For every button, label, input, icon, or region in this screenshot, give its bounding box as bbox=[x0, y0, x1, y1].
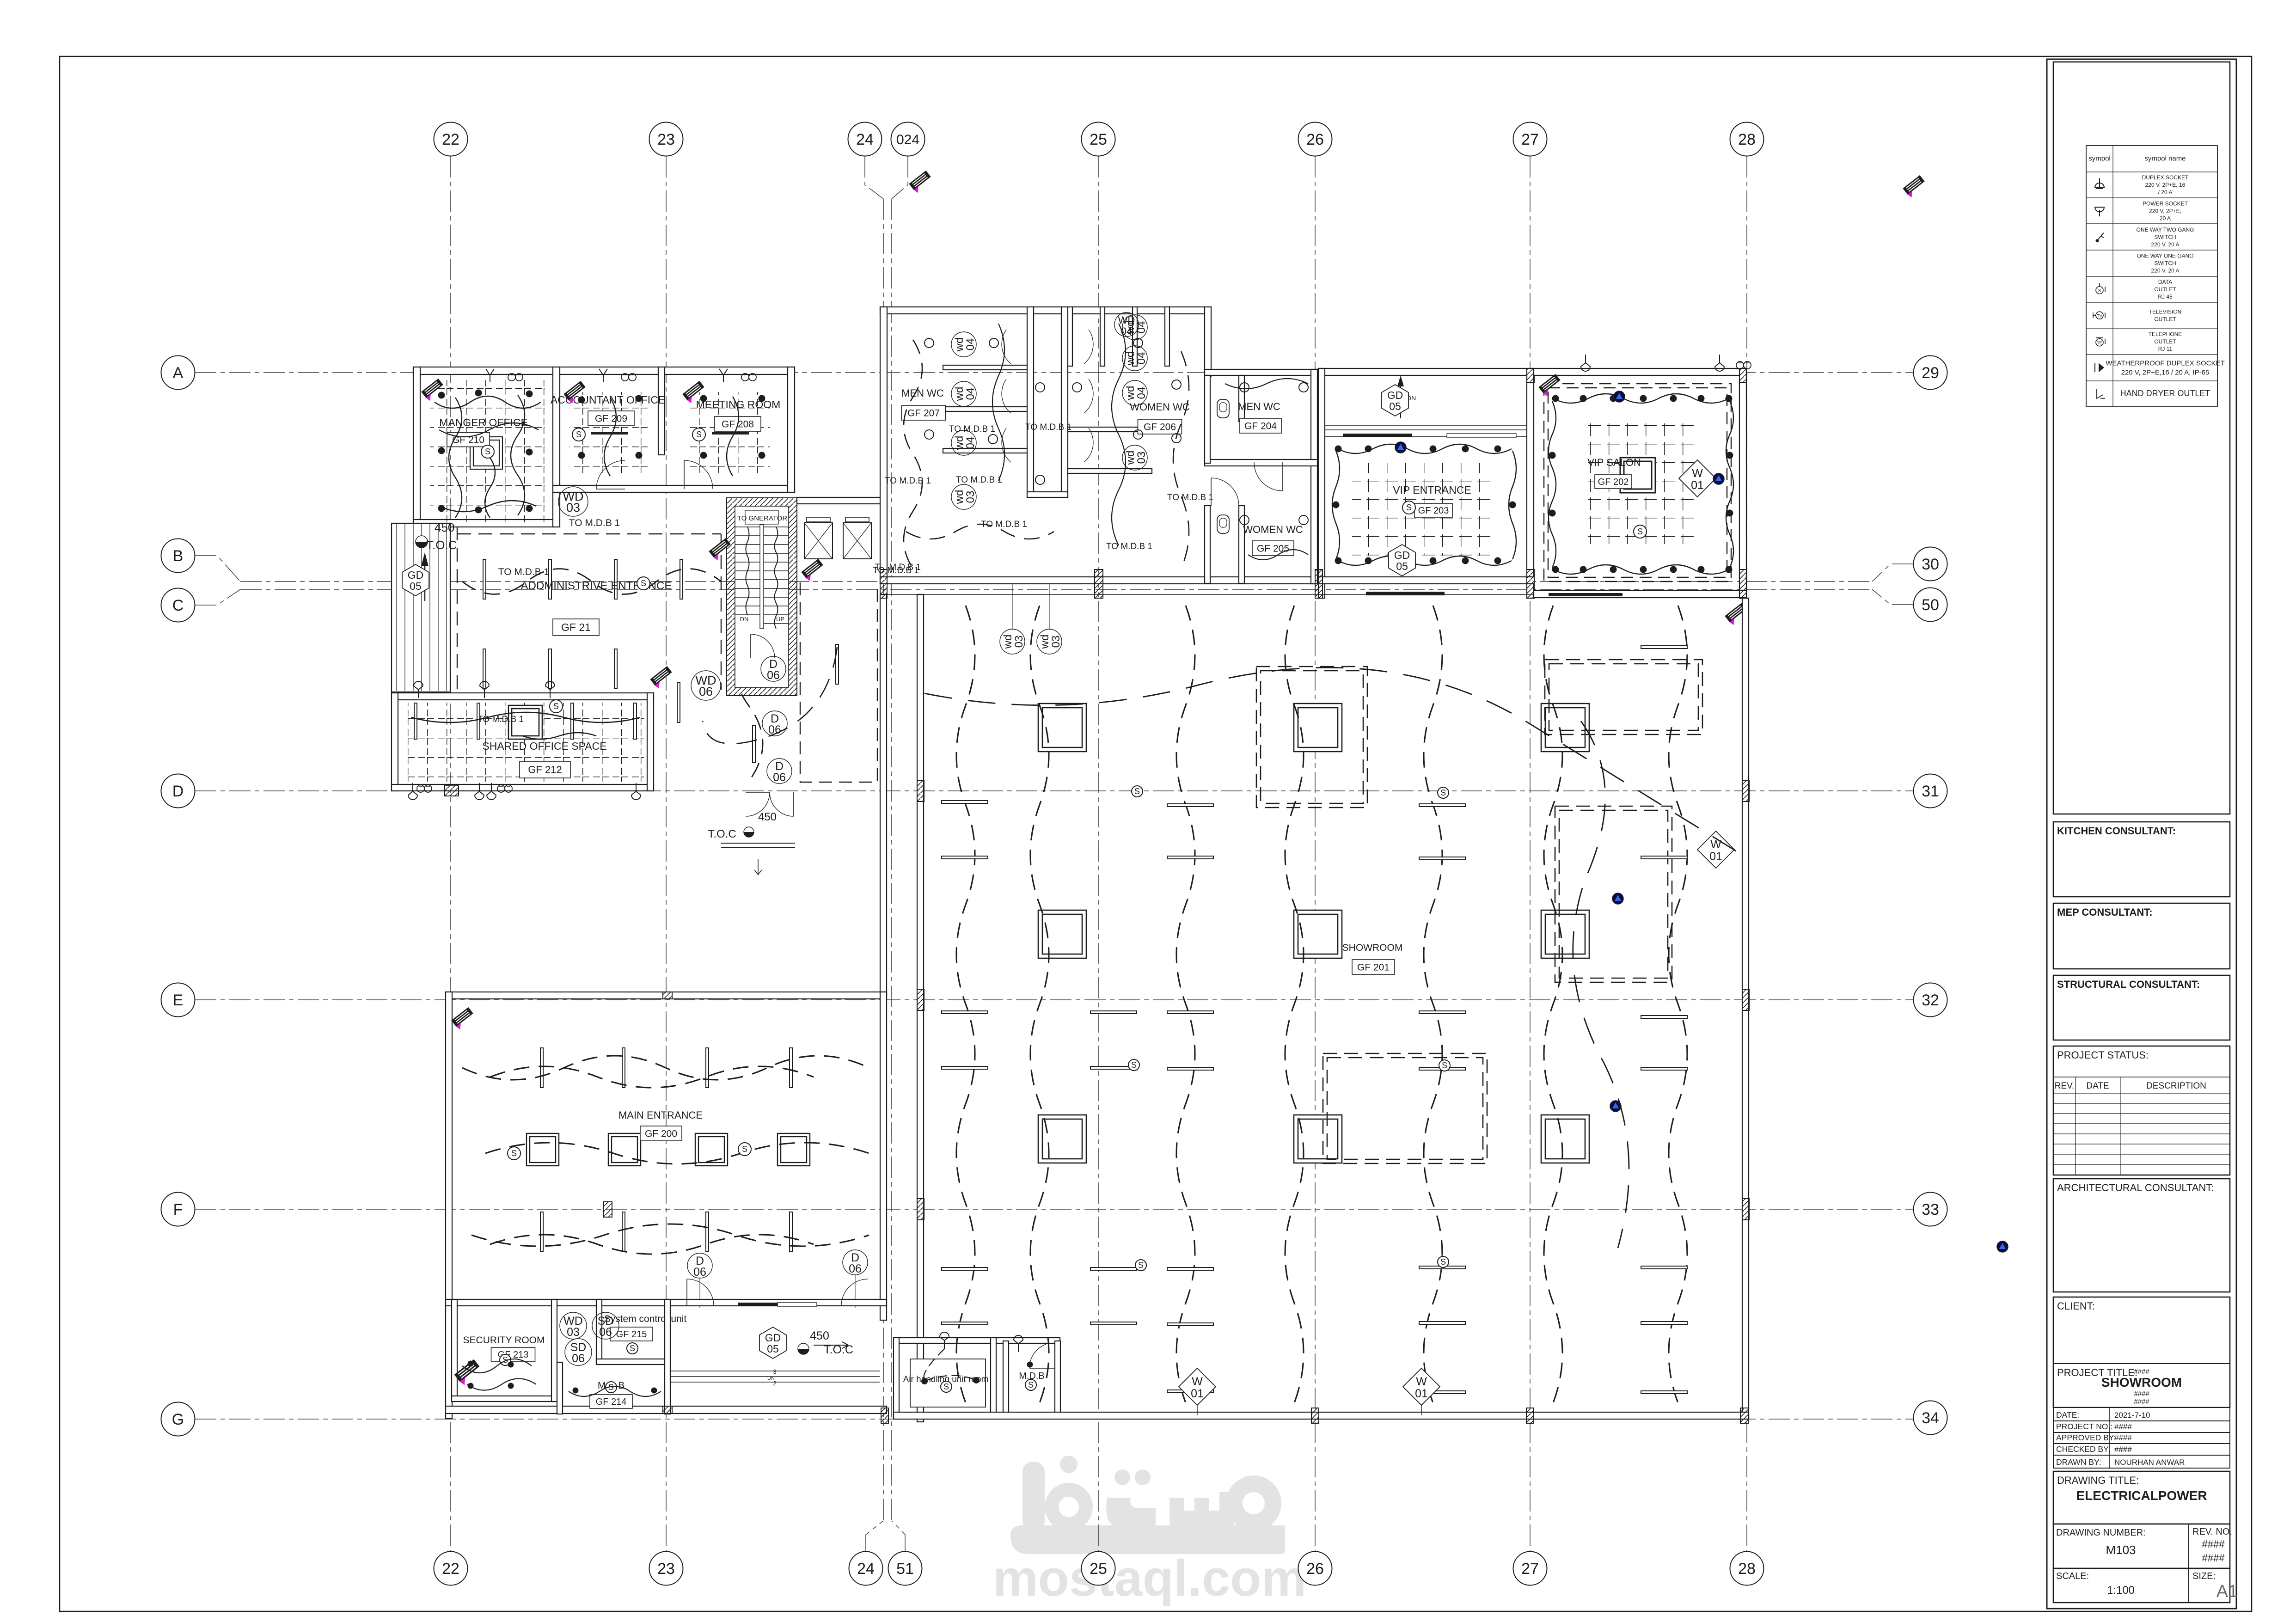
office wires + ceiling dots bbox=[438, 392, 445, 399]
svg-text:E: E bbox=[173, 992, 184, 1009]
svg-text:23: 23 bbox=[657, 1560, 675, 1578]
svg-text:S: S bbox=[1440, 1257, 1446, 1267]
svg-text:51: 51 bbox=[896, 1560, 914, 1578]
svg-text:S: S bbox=[1406, 503, 1412, 512]
svg-text:GF 201: GF 201 bbox=[1357, 962, 1390, 973]
svg-text:TO M.D.B 1: TO M.D.B 1 bbox=[949, 424, 995, 434]
svg-text:06: 06 bbox=[699, 685, 713, 698]
admin ticks bbox=[483, 559, 486, 599]
grid bubbles bbox=[434, 122, 468, 156]
svg-text:1:100: 1:100 bbox=[2107, 1584, 2135, 1597]
svg-text:ELECTRICALPOWER: ELECTRICALPOWER bbox=[2076, 1488, 2207, 1503]
svg-text:S: S bbox=[1440, 788, 1446, 797]
svg-text:22: 22 bbox=[442, 131, 459, 148]
svg-text:CHECKED BY:: CHECKED BY: bbox=[2056, 1444, 2111, 1454]
svg-text:F: F bbox=[173, 1201, 183, 1218]
security room bbox=[446, 1299, 887, 1306]
svg-text:01: 01 bbox=[1709, 850, 1722, 863]
svg-text:####: #### bbox=[2202, 1552, 2225, 1564]
svg-text:GF 212: GF 212 bbox=[528, 764, 562, 776]
showroom secondary entrance at D bbox=[746, 792, 770, 816]
svg-text:UP: UP bbox=[776, 616, 784, 623]
svg-text:S: S bbox=[553, 702, 559, 711]
svg-text:####: #### bbox=[2134, 1398, 2149, 1406]
svg-text:G: G bbox=[172, 1411, 184, 1428]
svg-text:DRAWING NUMBER:: DRAWING NUMBER: bbox=[2056, 1528, 2146, 1538]
svg-text:S: S bbox=[943, 1382, 949, 1391]
svg-text:A1: A1 bbox=[2216, 1582, 2238, 1601]
svg-text:2: 2 bbox=[773, 1380, 776, 1387]
vip entrance bbox=[1527, 368, 1534, 598]
svg-text:OUTLET: OUTLET bbox=[2154, 286, 2176, 293]
shared office walls bbox=[392, 693, 654, 700]
svg-text:S: S bbox=[630, 1344, 635, 1353]
svg-text:TO M.D.B 1: TO M.D.B 1 bbox=[956, 475, 1002, 485]
svg-text:NOURHAN ANWAR: NOURHAN ANWAR bbox=[2114, 1458, 2185, 1467]
svg-text:GF 207: GF 207 bbox=[907, 408, 940, 418]
svg-text:GF 209: GF 209 bbox=[595, 413, 627, 424]
wd circles toilets bbox=[951, 332, 976, 357]
svg-text:GF 205: GF 205 bbox=[1257, 543, 1289, 554]
svg-text:GD: GD bbox=[1387, 389, 1403, 401]
svg-text:06: 06 bbox=[767, 669, 780, 682]
svg-text:04: 04 bbox=[1121, 325, 1132, 337]
svg-text:GD: GD bbox=[408, 569, 424, 581]
svg-text:24: 24 bbox=[857, 1560, 875, 1578]
svg-text:M103: M103 bbox=[2106, 1543, 2136, 1557]
svg-text:####: #### bbox=[2114, 1445, 2132, 1454]
svg-text:450: 450 bbox=[810, 1329, 829, 1342]
svg-text:RJ 45: RJ 45 bbox=[2158, 294, 2173, 300]
svg-text:24: 24 bbox=[856, 131, 874, 148]
svg-text:WD: WD bbox=[1118, 314, 1135, 326]
structural grid bbox=[195, 156, 1913, 1551]
svg-text:TO M.D.B 1: TO M.D.B 1 bbox=[498, 567, 549, 577]
svg-text:wd: wd bbox=[953, 387, 966, 402]
svg-text:MEN WC: MEN WC bbox=[1238, 401, 1280, 412]
svg-text:GD: GD bbox=[1394, 549, 1410, 561]
svg-text:S: S bbox=[641, 579, 646, 588]
main hall wavy dashed wires bbox=[462, 1056, 869, 1080]
svg-text:OUTLET: OUTLET bbox=[2154, 316, 2176, 322]
svg-text:26: 26 bbox=[1306, 131, 1324, 148]
wc pans bbox=[1217, 399, 1229, 418]
title block bbox=[2047, 59, 2236, 1609]
hatch junctions showroom walls bbox=[917, 780, 924, 802]
svg-text:TO M.D.B 1: TO M.D.B 1 bbox=[1025, 422, 1071, 432]
main hall walls bbox=[446, 992, 887, 999]
svg-text:DRAWING TITLE:: DRAWING TITLE: bbox=[2057, 1475, 2139, 1486]
svg-text:01: 01 bbox=[1415, 1387, 1428, 1400]
svg-text:SHOWROOM: SHOWROOM bbox=[2101, 1375, 2182, 1389]
ramp lines bottom bbox=[670, 1371, 880, 1371]
svg-text:DATA: DATA bbox=[2158, 279, 2172, 285]
showroom columns bbox=[1038, 704, 1086, 752]
svg-text:04: 04 bbox=[964, 388, 977, 400]
svg-text:32: 32 bbox=[1922, 992, 1939, 1009]
showroom S circles bbox=[1132, 786, 1143, 797]
svg-text:GF 21: GF 21 bbox=[561, 621, 591, 633]
svg-text:S: S bbox=[485, 447, 490, 456]
corridor walls bbox=[880, 594, 887, 998]
svg-text:PROJECT NO.:: PROJECT NO.: bbox=[2056, 1422, 2112, 1431]
svg-text:S: S bbox=[576, 430, 582, 439]
svg-text:W: W bbox=[1192, 1375, 1203, 1388]
air handling unit room bbox=[894, 1338, 1060, 1343]
main hall columns bbox=[527, 1133, 559, 1166]
svg-text:25: 25 bbox=[1090, 131, 1107, 148]
vip entrance wires/dots bbox=[1338, 444, 1512, 453]
svg-text:TELEPHONE: TELEPHONE bbox=[2149, 331, 2182, 337]
svg-text:DN: DN bbox=[740, 616, 749, 623]
admin entrance dashed ceiling zone bbox=[457, 526, 721, 690]
svg-text:26: 26 bbox=[1306, 1560, 1324, 1578]
svg-text:04: 04 bbox=[1135, 352, 1148, 365]
svg-text:GD: GD bbox=[765, 1332, 781, 1344]
svg-text:APPROVED BY:: APPROVED BY: bbox=[2056, 1433, 2116, 1442]
svg-text:ONE WAY TWO GANG: ONE WAY TWO GANG bbox=[2137, 226, 2194, 233]
svg-text:28: 28 bbox=[1738, 131, 1756, 148]
svg-text:####: #### bbox=[2134, 1390, 2149, 1398]
svg-text:CLIENT:: CLIENT: bbox=[2057, 1300, 2095, 1312]
svg-text:29: 29 bbox=[1922, 364, 1939, 382]
corridor dashed ceiling zone bbox=[800, 582, 877, 782]
svg-text:KITCHEN CONSULTANT:: KITCHEN CONSULTANT: bbox=[2057, 825, 2176, 837]
showroom ticks bbox=[942, 801, 988, 803]
svg-text:03: 03 bbox=[964, 491, 977, 503]
svg-text:GF 203: GF 203 bbox=[1418, 506, 1449, 516]
svg-text:REV.: REV. bbox=[2055, 1081, 2075, 1091]
shared office perimeter lamps bbox=[414, 681, 423, 698]
svg-text:VIP ENTRANCE: VIP ENTRANCE bbox=[1393, 484, 1471, 496]
svg-text:W: W bbox=[1692, 467, 1703, 480]
svg-text:27: 27 bbox=[1521, 1560, 1539, 1578]
svg-text:34: 34 bbox=[1922, 1409, 1939, 1427]
svg-text:04: 04 bbox=[964, 338, 977, 351]
svg-text:TO M.D.B 1: TO M.D.B 1 bbox=[1167, 493, 1213, 502]
watermark mostaql bbox=[993, 1456, 1306, 1607]
vip salon wires/dots bbox=[1553, 394, 1729, 403]
svg-text:GF 206: GF 206 bbox=[1144, 422, 1176, 432]
svg-text:03: 03 bbox=[1013, 636, 1025, 648]
svg-text:REV. NO.: REV. NO. bbox=[2192, 1527, 2232, 1537]
svg-text:####: #### bbox=[2134, 1368, 2149, 1376]
svg-text:DUPLEX SOCKET: DUPLEX SOCKET bbox=[2142, 174, 2189, 181]
legend table bbox=[2086, 146, 2217, 407]
svg-text:S: S bbox=[742, 1145, 747, 1154]
svg-text:450: 450 bbox=[435, 520, 454, 534]
toilet fixtures bbox=[925, 338, 934, 348]
svg-text:T.O.C: T.O.C bbox=[426, 538, 457, 552]
cameras floating bbox=[909, 171, 934, 194]
svg-text:wd: wd bbox=[1002, 635, 1014, 649]
svg-text:S: S bbox=[511, 1149, 517, 1158]
svg-text:ONE WAY ONE GANG: ONE WAY ONE GANG bbox=[2137, 252, 2193, 259]
manager office ceiling grid bbox=[430, 380, 545, 523]
top wall fixtures bbox=[486, 369, 494, 382]
svg-text:GF 202: GF 202 bbox=[1598, 477, 1629, 487]
svg-text:TO M.D.B 1: TO M.D.B 1 bbox=[885, 476, 931, 486]
lamps on salon top wall bbox=[1581, 355, 1590, 371]
svg-text:03: 03 bbox=[1135, 452, 1148, 464]
svg-text:TE: TE bbox=[2097, 341, 2102, 345]
big dashed loop wires bbox=[925, 667, 1743, 855]
office block walls bbox=[413, 367, 795, 374]
svg-text:SCALE:: SCALE: bbox=[2056, 1571, 2089, 1581]
cameras offices bbox=[421, 379, 446, 402]
svg-text:MAIN ENTRANCE: MAIN ENTRANCE bbox=[618, 1109, 703, 1121]
svg-text:S: S bbox=[1637, 527, 1643, 536]
svg-text:S: S bbox=[1028, 1380, 1034, 1389]
svg-text:D: D bbox=[172, 783, 184, 800]
toilet internal walls bbox=[1027, 307, 1034, 497]
svg-text:WOMEN WC: WOMEN WC bbox=[1243, 524, 1303, 535]
admin wavy wires bbox=[462, 569, 721, 594]
system control unit room bbox=[596, 1299, 602, 1364]
svg-text:33: 33 bbox=[1922, 1201, 1939, 1218]
svg-text:RJ 11: RJ 11 bbox=[2158, 346, 2173, 352]
svg-text:####: #### bbox=[2114, 1433, 2132, 1442]
svg-text:S: S bbox=[1131, 1060, 1137, 1070]
svg-text:wd: wd bbox=[1124, 386, 1137, 401]
svg-text:A: A bbox=[173, 364, 184, 382]
stair block bbox=[727, 498, 797, 696]
svg-text:06: 06 bbox=[572, 1352, 585, 1365]
svg-text:TELEVISION: TELEVISION bbox=[2149, 308, 2182, 315]
svg-text:STRUCTURAL CONSULTANT:: STRUCTURAL CONSULTANT: bbox=[2057, 979, 2200, 990]
door arcs offices bbox=[596, 460, 625, 489]
svg-text:sympol name: sympol name bbox=[2144, 154, 2186, 162]
svg-text:HAND DRYER OUTLET: HAND DRYER OUTLET bbox=[2120, 389, 2210, 398]
WD06 labels bbox=[691, 671, 721, 700]
svg-text:mostaql.com: mostaql.com bbox=[993, 1550, 1306, 1607]
svg-text:05: 05 bbox=[767, 1343, 779, 1355]
svg-text:sympol: sympol bbox=[2088, 154, 2111, 162]
shared office ceiling grid bbox=[407, 703, 644, 782]
svg-text:/ 20 A: / 20 A bbox=[2158, 189, 2173, 196]
svg-text:ARCHITECTURAL CONSULTANT:: ARCHITECTURAL CONSULTANT: bbox=[2057, 1182, 2214, 1194]
toilet wavy wires bbox=[904, 340, 922, 569]
svg-text:S: S bbox=[1442, 1061, 1447, 1070]
svg-text:TO GNERATOR: TO GNERATOR bbox=[737, 514, 788, 522]
svg-text:B: B bbox=[173, 547, 184, 565]
svg-text:wd: wd bbox=[953, 337, 966, 352]
svg-text:POWER SOCKET: POWER SOCKET bbox=[2143, 200, 2188, 207]
svg-text:04: 04 bbox=[1135, 321, 1148, 334]
svg-text:04: 04 bbox=[964, 437, 977, 449]
svg-text:06: 06 bbox=[849, 1262, 862, 1275]
svg-text:30: 30 bbox=[1922, 556, 1939, 573]
main hall ticks bbox=[540, 1048, 543, 1088]
svg-text:03: 03 bbox=[567, 1326, 580, 1339]
svg-text:05: 05 bbox=[410, 580, 422, 592]
dock ramp bbox=[392, 523, 450, 692]
svg-text:220 V, 20 A: 220 V, 20 A bbox=[2151, 241, 2180, 248]
svg-text:22: 22 bbox=[442, 1560, 459, 1578]
svg-text:wd: wd bbox=[1039, 635, 1051, 649]
vip salon walls bbox=[1534, 368, 1746, 375]
svg-text:TO M.D.B 1: TO M.D.B 1 bbox=[1106, 542, 1152, 551]
svg-text:W: W bbox=[1710, 838, 1721, 851]
svg-text:S: S bbox=[696, 430, 702, 439]
svg-text:W: W bbox=[1416, 1375, 1427, 1388]
svg-text:wd: wd bbox=[953, 490, 966, 505]
svg-text:MEN WC: MEN WC bbox=[901, 387, 944, 399]
showroom outer walls bbox=[1742, 598, 1749, 1419]
svg-text:TO M.D.B 1: TO M.D.B 1 bbox=[569, 518, 620, 528]
svg-text:28: 28 bbox=[1738, 1560, 1756, 1578]
svg-text:PROJECT STATUS:: PROJECT STATUS: bbox=[2057, 1049, 2149, 1061]
svg-text:C: C bbox=[172, 597, 184, 614]
showroom W01 diamonds bbox=[1697, 831, 1734, 868]
svg-text:WEATHERPROOF DUPLEX SOCKET: WEATHERPROOF DUPLEX SOCKET bbox=[2106, 359, 2224, 367]
toilet block outer walls bbox=[880, 307, 1211, 314]
MDB room bbox=[1003, 1341, 1009, 1419]
svg-text:WOMEN WC: WOMEN WC bbox=[1130, 401, 1190, 413]
manager office column bbox=[470, 437, 502, 469]
accountant office ceiling grid bbox=[569, 392, 651, 474]
svg-text:S: S bbox=[1134, 787, 1140, 796]
svg-text:05: 05 bbox=[1396, 560, 1408, 572]
svg-text:220 V, 20 A: 220 V, 20 A bbox=[2151, 267, 2180, 274]
vip canopy bbox=[1318, 368, 1534, 375]
elevators bbox=[797, 497, 886, 504]
svg-text:VIP SALON: VIP SALON bbox=[1587, 457, 1641, 468]
svg-text:OUTLET: OUTLET bbox=[2154, 338, 2176, 345]
svg-text:DATE:: DATE: bbox=[2056, 1410, 2079, 1420]
svg-text:06: 06 bbox=[693, 1266, 706, 1279]
hatch columns on toilet bottom wall bbox=[1095, 569, 1103, 598]
svg-text:SHOWROOM: SHOWROOM bbox=[1342, 943, 1403, 953]
svg-text:03: 03 bbox=[1050, 636, 1062, 648]
svg-text:S: S bbox=[1138, 1261, 1144, 1270]
svg-text:S: S bbox=[2098, 288, 2101, 294]
toilet doors bbox=[1002, 330, 1011, 364]
svg-text:06: 06 bbox=[773, 771, 786, 784]
svg-text:2021-7-10: 2021-7-10 bbox=[2114, 1411, 2150, 1420]
svg-text:25: 25 bbox=[1090, 1560, 1107, 1578]
svg-text:GF 200: GF 200 bbox=[645, 1128, 677, 1139]
svg-text:MEP CONSULTANT:: MEP CONSULTANT: bbox=[2057, 906, 2153, 918]
svg-text:SECURITY ROOM: SECURITY ROOM bbox=[463, 1335, 545, 1346]
svg-text:024: 024 bbox=[896, 132, 919, 147]
corridor big dashed wire bbox=[703, 647, 837, 744]
svg-text:wd: wd bbox=[953, 436, 966, 451]
svg-text:220 V, 2P+E, 16: 220 V, 2P+E, 16 bbox=[2145, 182, 2186, 188]
svg-text:SWITCH: SWITCH bbox=[2154, 234, 2176, 240]
svg-text:450: 450 bbox=[758, 811, 777, 823]
svg-text:GF 214: GF 214 bbox=[596, 1397, 627, 1407]
showroom dashed ceiling zones bbox=[1256, 667, 1367, 808]
svg-text:31: 31 bbox=[1922, 783, 1939, 800]
svg-text:220 V, 2P+E,: 220 V, 2P+E, bbox=[2149, 208, 2181, 214]
svg-text:DESCRIPTION: DESCRIPTION bbox=[2146, 1081, 2206, 1091]
svg-text:220 V, 2P+E,16 / 20 A, IP-65: 220 V, 2P+E,16 / 20 A, IP-65 bbox=[2121, 368, 2210, 376]
corridor D06 circles bbox=[761, 656, 786, 681]
svg-text:3: 3 bbox=[773, 1368, 776, 1375]
svg-text:System control unit: System control unit bbox=[604, 1314, 687, 1324]
svg-text:03: 03 bbox=[566, 501, 580, 514]
svg-text:06: 06 bbox=[599, 1326, 612, 1339]
svg-text:wd: wd bbox=[1124, 351, 1137, 366]
svg-text:20 A: 20 A bbox=[2160, 215, 2171, 221]
svg-text:27: 27 bbox=[1521, 131, 1539, 148]
svg-text:####: #### bbox=[2114, 1422, 2132, 1431]
svg-text:TV: TV bbox=[2097, 313, 2102, 318]
wd03 door bottom leaders bbox=[1012, 584, 1013, 630]
svg-text:####: #### bbox=[2202, 1538, 2225, 1550]
svg-text:SHARED OFFICE SPACE: SHARED OFFICE SPACE bbox=[482, 740, 606, 752]
svg-text:GF 204: GF 204 bbox=[1244, 421, 1277, 431]
svg-text:01: 01 bbox=[1691, 479, 1704, 492]
svg-text:01: 01 bbox=[1191, 1387, 1204, 1400]
svg-text:GF 215: GF 215 bbox=[616, 1329, 647, 1340]
svg-text:SWITCH: SWITCH bbox=[2154, 260, 2176, 266]
svg-text:04: 04 bbox=[1135, 387, 1148, 399]
svg-text:SIZE:: SIZE: bbox=[2192, 1571, 2216, 1581]
svg-text:T.O.C: T.O.C bbox=[708, 828, 736, 840]
hatch cols vip bbox=[1315, 569, 1322, 598]
bottom corridor doors bbox=[687, 1279, 714, 1306]
MDB room bbox=[557, 1362, 563, 1414]
svg-text:DRAWN BY:: DRAWN BY: bbox=[2056, 1457, 2101, 1467]
shared office ticks bbox=[414, 703, 417, 739]
svg-text:DATE: DATE bbox=[2086, 1081, 2109, 1091]
meeting room ceiling grid bbox=[690, 392, 770, 474]
showroom wavy wires bbox=[956, 606, 975, 1403]
svg-text:TO M.D.B 1: TO M.D.B 1 bbox=[478, 715, 524, 724]
svg-text:50: 50 bbox=[1922, 596, 1939, 614]
svg-text:23: 23 bbox=[657, 131, 675, 148]
svg-text:05: 05 bbox=[1389, 400, 1401, 412]
